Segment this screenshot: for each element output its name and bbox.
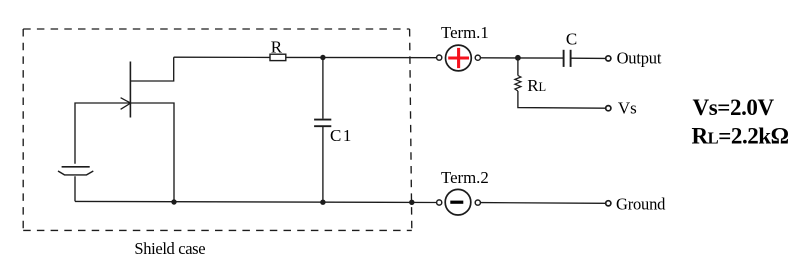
- svg-text:RL=2.2kΩ: RL=2.2kΩ: [692, 124, 789, 149]
- svg-text:C: C: [566, 29, 577, 48]
- svg-text:RL: RL: [527, 76, 546, 95]
- svg-text:Term.1: Term.1: [441, 23, 489, 42]
- svg-text:Shield case: Shield case: [134, 239, 205, 258]
- svg-text:Output: Output: [617, 49, 662, 68]
- svg-text:Term.2: Term.2: [441, 168, 489, 187]
- svg-text:Vs=2.0V: Vs=2.0V: [693, 95, 775, 120]
- svg-text:R: R: [271, 37, 283, 56]
- svg-text:Ground: Ground: [616, 194, 666, 213]
- svg-text:C1: C1: [330, 126, 353, 145]
- svg-text:Vs: Vs: [618, 99, 637, 118]
